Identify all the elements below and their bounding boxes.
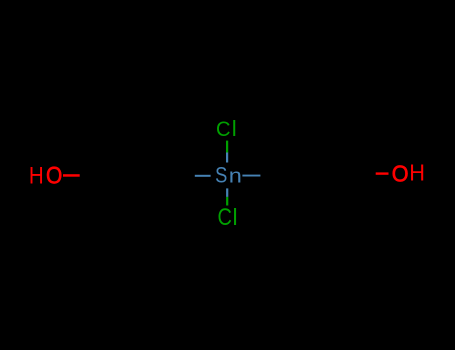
svg-text:H: H: [29, 164, 44, 190]
svg-text:S: S: [215, 163, 227, 188]
bond Sn-C(ring) blue segment right: [242, 175, 260, 177]
svg-text:C: C: [216, 116, 231, 141]
atom label Cl2 (bottom chlorine): [218, 204, 238, 231]
svg-text:C: C: [218, 205, 232, 231]
svg-text:l: l: [233, 204, 238, 230]
svg-text:O: O: [46, 163, 62, 190]
atom label Sn (central tin): [215, 163, 242, 188]
bond O1-C(ring) red segment: [63, 174, 80, 177]
bond C(ring)-O2 red segment right: [376, 172, 389, 174]
bond Cl1-Sn green half (top): [226, 141, 228, 153]
svg-text:l: l: [232, 116, 237, 141]
bond Cl1-Sn blue half (top): [226, 153, 228, 163]
svg-text:O: O: [392, 160, 409, 186]
atom label HO (left hydroxyl O1): [29, 163, 62, 190]
atom label Cl1 (top chlorine): [216, 116, 237, 141]
svg-text:H: H: [409, 160, 425, 186]
svg-text:n: n: [229, 166, 242, 188]
bond Sn-Cl2 blue half (bottom): [226, 188, 228, 197]
bond C(ring)-Sn blue segment left: [195, 175, 211, 177]
atom label OH (right hydroxyl O2): [392, 160, 425, 187]
bond Sn-Cl2 green half (bottom): [226, 197, 228, 206]
